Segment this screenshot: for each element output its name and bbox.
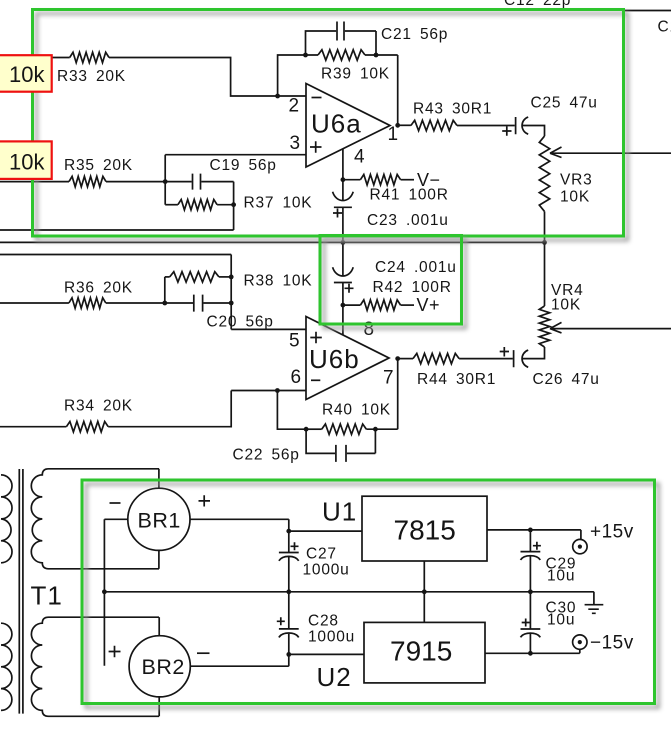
annotation green box top (33, 10, 624, 237)
node R36/R38 (162, 301, 167, 306)
svg-text:U6a: U6a (311, 109, 362, 139)
svg-text:U1: U1 (322, 497, 357, 527)
svg-text:C27: C27 (306, 546, 337, 563)
annotation green box middle (320, 236, 462, 325)
regulator U2 7915 (364, 622, 485, 683)
wire output to R44 (398, 358, 413, 360)
op-amp U6b (306, 317, 389, 400)
capacitor C30 plus (522, 619, 530, 627)
node U2 output tap (528, 651, 533, 656)
svg-text:C28: C28 (308, 613, 339, 630)
wire R37 ground return (0, 229, 234, 231)
wire C27 to rail (288, 557, 290, 592)
wire C21 left branch (306, 31, 337, 55)
svg-text:V+: V+ (417, 295, 441, 315)
wire R38 left lead (165, 276, 170, 278)
capacitor C27 (279, 553, 299, 561)
node rail BR (102, 589, 107, 594)
wire R35 to pin3 node (106, 181, 165, 183)
node C20 right (229, 301, 234, 306)
callout 10k box 1 (0, 55, 52, 91)
node U6a output (395, 123, 400, 128)
wire BR1 bottom lead (158, 550, 160, 568)
capacitor C23 plus (333, 209, 342, 218)
capacitor C26 (514, 350, 529, 367)
BR1 minus sign (110, 502, 121, 504)
svg-text:10k: 10k (9, 150, 45, 175)
VR4 wiper arrow (550, 322, 562, 333)
svg-text:U6b: U6b (309, 344, 360, 374)
svg-text:5: 5 (289, 331, 300, 352)
svg-text:7815: 7815 (394, 515, 456, 546)
wire from 10k box to R33 (52, 57, 70, 59)
wire R40 right lead (366, 428, 397, 430)
node R42 (341, 303, 346, 308)
U6b plus symbol (310, 332, 322, 344)
wire R40 left lead (306, 428, 322, 430)
wire U1 to U2 ground link (423, 561, 425, 622)
wire R42 lead (343, 304, 361, 306)
potentiometer VR3 (539, 136, 549, 211)
wire pin3 (165, 154, 306, 156)
terminal +15v pin (578, 545, 582, 549)
node U6b output (395, 356, 400, 361)
resistor R41 (360, 175, 400, 185)
wire U2 input (289, 653, 364, 655)
node R39/C21 left (303, 53, 308, 58)
svg-text:7: 7 (383, 368, 394, 389)
wire R37 left lead (165, 204, 178, 206)
wire output to R43 (398, 124, 411, 126)
resistor R34 (66, 422, 108, 432)
resistor R42 (360, 300, 400, 310)
wire R34 to pin6 (108, 391, 306, 427)
capacitor C25 (516, 117, 529, 134)
resistor R39 (318, 50, 365, 60)
svg-text:C20 56p: C20 56p (207, 314, 274, 331)
wire C21 right branch (345, 31, 376, 55)
BR2 plus sign (109, 646, 121, 658)
wire C29 leads (529, 530, 531, 592)
svg-text:C22 56p: C22 56p (233, 447, 300, 464)
wire C23 to rail (342, 207, 344, 242)
svg-text:8: 8 (364, 319, 375, 340)
ground symbol (585, 605, 604, 614)
svg-text:1000u: 1000u (308, 629, 355, 646)
capacitor C26 plus (500, 347, 509, 357)
svg-text:10k: 10k (9, 62, 45, 87)
svg-text:C19 56p: C19 56p (210, 157, 277, 174)
wire R44 to C26 (459, 358, 513, 360)
wire BR2 right (190, 654, 288, 666)
resistor R35 (69, 176, 106, 186)
svg-text:10K: 10K (551, 297, 581, 314)
wire C28 leads (288, 592, 290, 655)
capacitor C29 (521, 552, 541, 560)
svg-text:C21 56p: C21 56p (381, 26, 448, 43)
wire R36 to node (106, 302, 193, 304)
node rail U1/U2 (422, 589, 427, 594)
svg-text:C23 .001u: C23 .001u (367, 212, 449, 229)
node R40 left (304, 427, 309, 432)
wire R39 right to output riser (365, 55, 398, 125)
wire pin4 (342, 149, 344, 201)
svg-text:T1: T1 (31, 581, 63, 611)
wire C22 left branch (306, 429, 335, 453)
wire pin4 to R41 (343, 179, 361, 181)
node C29 tap (528, 528, 533, 533)
resistor R43 (411, 120, 457, 130)
wire common rail (0, 241, 545, 243)
node rail/VR3 (542, 240, 547, 245)
node pin4 (341, 177, 346, 182)
svg-text:R42 100R: R42 100R (373, 279, 452, 296)
transformer T1 primary bottom (1, 623, 12, 710)
resistor R37 (178, 200, 217, 210)
VR3 wiper arrow (550, 147, 562, 158)
U6b minus symbol (311, 379, 320, 381)
wire BR1 left (104, 519, 127, 666)
capacitor C20 (194, 295, 203, 312)
capacitor C28 plus (277, 617, 285, 625)
wire C20 right (204, 302, 232, 304)
svg-text:R34 20K: R34 20K (64, 398, 133, 415)
op-amp U6a (306, 84, 390, 168)
svg-text:7915: 7915 (390, 636, 452, 667)
wire C19 right (201, 182, 233, 230)
svg-text:R44 30R1: R44 30R1 (417, 371, 496, 388)
resistor R38 (170, 272, 219, 282)
wire VR3 wiper to right edge (550, 152, 671, 154)
svg-text:V−: V− (417, 170, 441, 190)
wire pin6 feedback riser (277, 391, 306, 430)
wire R34 input (0, 426, 66, 428)
wire VR3 bottom (544, 211, 546, 242)
capacitor C28 (279, 629, 299, 638)
node R40 right (373, 427, 378, 432)
svg-text:10u: 10u (547, 612, 575, 629)
wire R37 right lead (217, 204, 234, 206)
capacitor C29 plus (533, 542, 541, 550)
wire C25 to VR3 (523, 126, 545, 137)
wire center rail (104, 592, 594, 605)
potentiometer VR4 (539, 306, 549, 347)
svg-text:6: 6 (291, 367, 302, 388)
wire rail to C24 (342, 242, 344, 275)
bridge rectifier BR2 (129, 636, 190, 697)
wire R43 to C25 (457, 125, 515, 127)
svg-text:2: 2 (289, 96, 300, 117)
wire pin5 (231, 328, 306, 330)
wire pin3 riser (164, 155, 166, 205)
transformer T1 primary top (1, 475, 12, 563)
capacitor C22 (336, 445, 346, 462)
svg-text:U2: U2 (317, 662, 352, 692)
wire VR4 wiper to right edge (550, 328, 671, 330)
wire net to R38 (0, 255, 231, 330)
svg-text:R36 20K: R36 20K (64, 280, 133, 297)
bridge rectifier BR1 (128, 488, 190, 550)
node pin3 (163, 179, 168, 184)
svg-text:R43 30R1: R43 30R1 (413, 101, 492, 118)
wire R35 input (0, 181, 69, 183)
svg-text:C26 47u: C26 47u (533, 371, 600, 388)
svg-text:4: 4 (354, 147, 365, 168)
capacitor C30 (521, 629, 541, 637)
capacitor C27 plus (291, 542, 299, 550)
svg-text:R40 10K: R40 10K (322, 402, 391, 419)
svg-text:R33 20K: R33 20K (57, 68, 126, 85)
svg-text:C25 47u: C25 47u (531, 95, 598, 112)
wire R38 riser (164, 277, 166, 303)
BR1 plus sign (199, 495, 211, 506)
svg-text:1000u: 1000u (303, 562, 350, 579)
node R38 right (229, 275, 234, 280)
capacitor C24 (333, 267, 354, 282)
wire C30 leads (529, 592, 531, 654)
svg-text:R37 10K: R37 10K (244, 195, 313, 212)
svg-text:C1: C1 (658, 19, 671, 36)
capacitor C21 (337, 22, 344, 41)
capacitor C19 (193, 174, 201, 190)
wire feedback left riser (278, 55, 318, 96)
transformer T1 secondary top (31, 469, 159, 569)
wire output7 riser (397, 359, 399, 430)
capacitor C23 (333, 192, 354, 208)
svg-text:10K: 10K (560, 189, 590, 206)
capacitor C24 plus (345, 284, 354, 293)
node rail/pin4 (341, 240, 346, 245)
wire C24 to R42 node (342, 283, 344, 306)
svg-text:R35 20K: R35 20K (64, 157, 133, 174)
node R39/C21 right (374, 53, 379, 58)
regulator U1 7815 (362, 496, 487, 561)
wire R33 to U6a pin2 (109, 58, 306, 97)
node R37 right (231, 202, 236, 207)
wire BR1 right to C27 (190, 519, 289, 552)
U6a minus symbol (312, 97, 322, 99)
wire U1 output (487, 530, 581, 540)
wire BR1 top lead (158, 469, 160, 488)
callout 10k box 2 (0, 141, 52, 179)
node U1 input tap (286, 529, 291, 534)
wire C22 right branch (347, 429, 376, 453)
wire C26 to VR4 (523, 347, 545, 359)
BR2 minus sign (197, 652, 210, 654)
resistor R40 (322, 424, 367, 434)
wire R42 to V+ (401, 304, 414, 306)
svg-text:R39 10K: R39 10K (321, 66, 390, 83)
svg-text:VR3: VR3 (560, 172, 593, 189)
svg-text:BR2: BR2 (142, 655, 185, 679)
svg-text:C12 22p: C12 22p (504, 0, 571, 9)
wire VR4 top (544, 242, 546, 306)
annotation green box bottom (82, 480, 655, 704)
transformer T1 core (19, 469, 23, 714)
wire BR2 top lead (158, 617, 160, 636)
resistor R36 (69, 298, 106, 308)
U6a plus symbol (310, 141, 322, 153)
wire C12 net top (624, 10, 671, 12)
wire BR2 bottom lead (158, 697, 160, 716)
svg-text:−15v: −15v (590, 633, 634, 654)
svg-text:R38 10K: R38 10K (244, 273, 313, 290)
node rail C29/C30 (528, 589, 533, 594)
wire R36 input (0, 302, 69, 304)
terminal +15v (573, 539, 587, 553)
terminal -15v pin (578, 640, 582, 644)
node U2 input tap (286, 652, 291, 657)
transformer T1 secondary bottom (31, 617, 159, 716)
resistor R33 (70, 52, 109, 62)
svg-text:10u: 10u (547, 568, 575, 585)
svg-text:C24 .001u: C24 .001u (375, 259, 457, 276)
terminal -15v (573, 635, 587, 649)
wire U2 output (485, 649, 580, 653)
svg-text:3: 3 (290, 133, 301, 154)
wire to C19 (165, 181, 192, 183)
node pin6 (275, 388, 280, 393)
node pin2 junction (275, 94, 280, 99)
wire R41 to V- (401, 179, 414, 181)
wire U1 input (289, 530, 362, 532)
capacitor C25 plus (502, 126, 511, 136)
svg-text:+15v: +15v (590, 522, 634, 543)
resistor R44 (413, 353, 459, 363)
wire R38 right lead (219, 276, 231, 278)
node rail C27/C28 (286, 589, 291, 594)
wire pin8 (342, 305, 344, 335)
svg-text:BR1: BR1 (138, 509, 181, 533)
